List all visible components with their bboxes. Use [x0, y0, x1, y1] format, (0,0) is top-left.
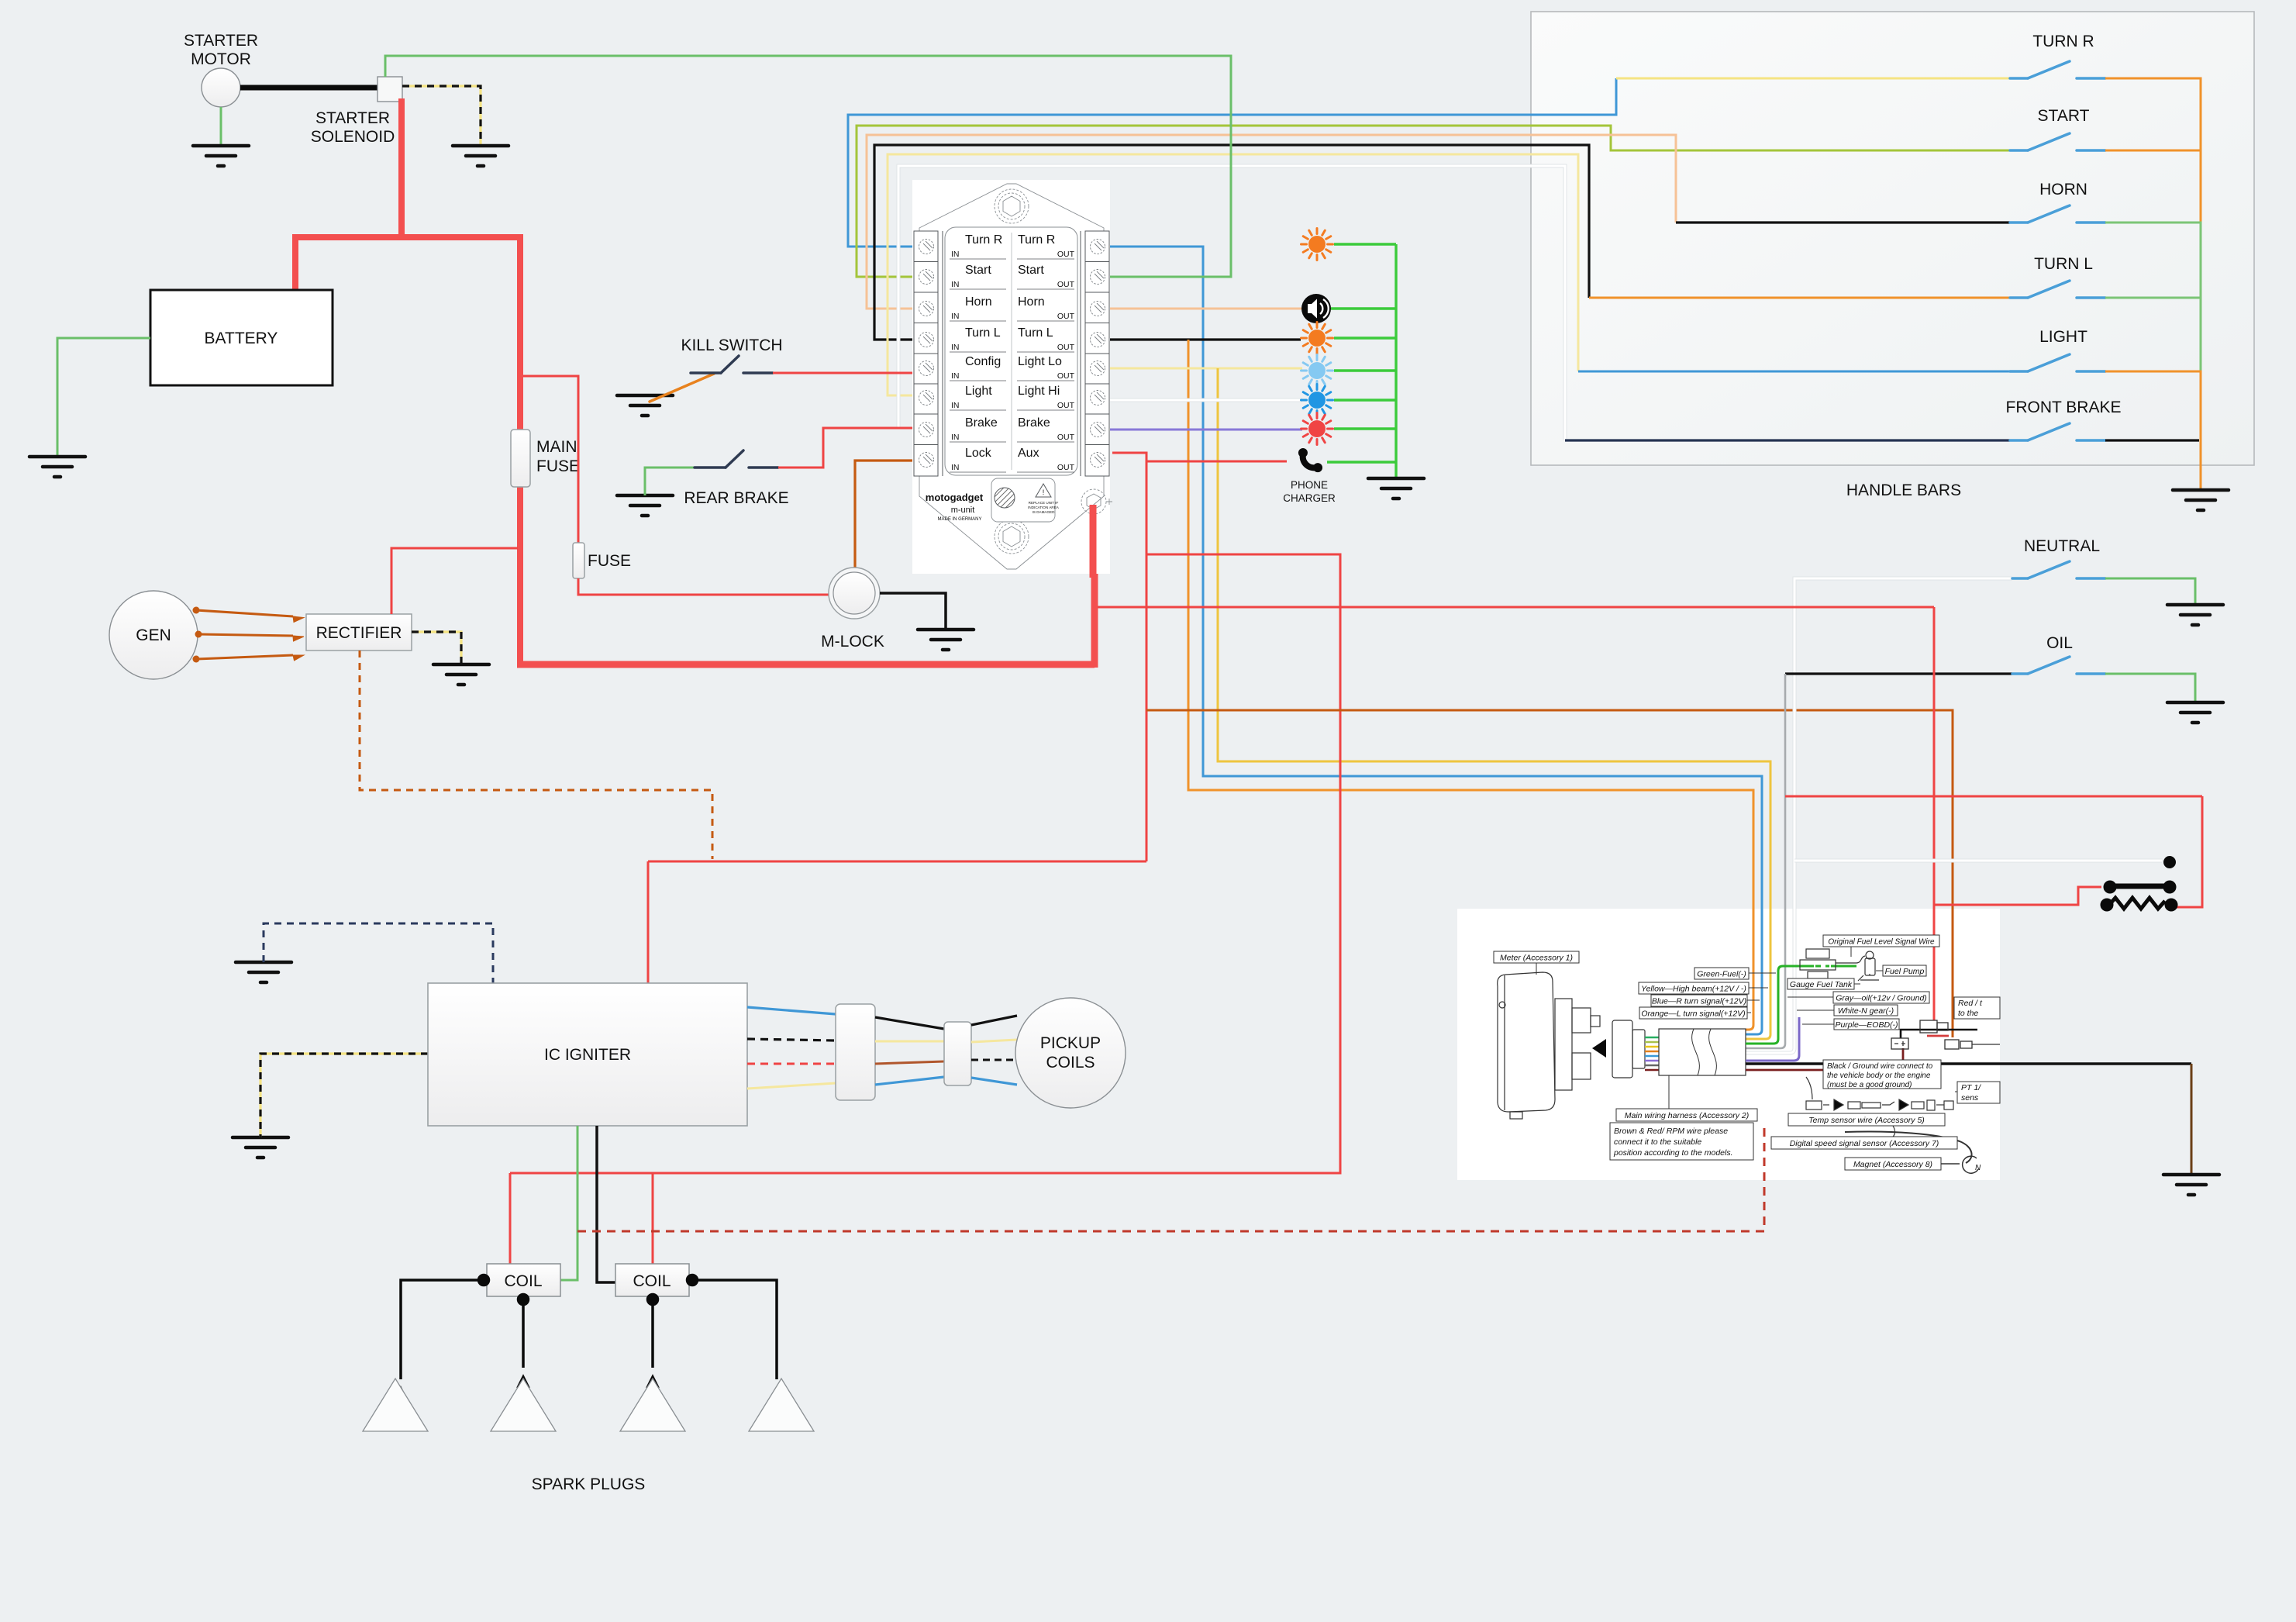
wire: navy FRONT BRAKE switch feed [1565, 439, 2010, 441]
spark plug 2 [491, 1379, 556, 1431]
wire: gen phase arrows to rectifier [193, 607, 305, 663]
switch OIL [2012, 657, 2105, 674]
ground indicator bus [1368, 478, 1424, 499]
wire: orange turn R out to right bus [2105, 78, 2201, 223]
svg-text:GEN: GEN [136, 626, 171, 644]
svg-text:Turn R: Turn R [965, 233, 1002, 247]
svg-text:STARTER: STARTER [315, 109, 390, 127]
m-unit top screw [995, 189, 1029, 223]
wire: brown drop to engine ground [2191, 1064, 2193, 1173]
wire: white neutral run [1746, 578, 2012, 1053]
rectifier [306, 614, 412, 651]
meter label [1494, 951, 1579, 975]
svg-text:IN: IN [951, 463, 960, 472]
svg-text:Light: Light [965, 385, 992, 398]
svg-text:IN: IN [951, 250, 960, 259]
svg-text:Gauge Fuel Tank: Gauge Fuel Tank [1790, 980, 1853, 989]
wire: black m-lock to ground [880, 593, 946, 628]
svg-text:Red / t: Red / t [1958, 999, 1983, 1008]
label magnet [1845, 1158, 1941, 1170]
starter motor [202, 68, 240, 107]
wire: yellow high-beam accessory run to meter [1218, 368, 1770, 1039]
svg-text:Brake: Brake [965, 416, 998, 430]
svg-text:IS DAMAGED: IS DAMAGED [1033, 510, 1056, 514]
switch TURN R [2010, 61, 2105, 78]
meter plug arrow [1592, 1039, 1606, 1058]
meter body drawing [1498, 972, 1600, 1119]
wire: dark red harness lead [1746, 1048, 1903, 1070]
switch START [2010, 133, 2105, 150]
indicator high beam lamp [1301, 385, 1333, 416]
wire: black battery lead [1901, 1030, 1977, 1038]
coil 1 [487, 1264, 560, 1296]
svg-text:IC IGNITER: IC IGNITER [544, 1046, 631, 1064]
svg-text:Turn L: Turn L [965, 326, 1001, 340]
switch FRONT BRAKE [2010, 423, 2105, 440]
ground neutral [2167, 605, 2223, 625]
wire: blue Turn R OUT to meter [1110, 247, 1762, 1034]
m-unit power screw [1081, 489, 1106, 514]
svg-text:Yellow—High beam(+12V / -): Yellow—High beam(+12V / -) [1641, 985, 1746, 994]
wire: dashed orange rectifier charge lead [360, 651, 712, 859]
fuel tank connector [1800, 949, 1865, 978]
wire: blue bus Turn R IN from handlebars to unit [848, 78, 1616, 247]
wire: solenoid dashed yellow-black to ground [402, 86, 481, 144]
svg-text:OIL: OIL [2046, 634, 2073, 652]
label rpm note [1610, 1123, 1753, 1160]
wire: red kill switch to Config IN [773, 372, 912, 374]
svg-text:Main wiring harness (Accessory: Main wiring harness (Accessory 2) [1625, 1111, 1749, 1120]
harness ribbon [1645, 1037, 1659, 1070]
label PT sensor [1955, 1082, 2000, 1103]
wire: black dashed to pickup [971, 1059, 1017, 1061]
svg-text:Brown & Red/ RPM wire please: Brown & Red/ RPM wire please [1614, 1127, 1728, 1136]
indicator brake lamp [1301, 413, 1333, 445]
svg-text:Magnet (Accessory 8): Magnet (Accessory 8) [1853, 1160, 1932, 1169]
wire: yellow TURN R switch feed [1616, 78, 2010, 80]
svg-text:IN: IN [951, 401, 960, 410]
svg-text:Turn L: Turn L [1018, 326, 1053, 340]
svg-text:Horn: Horn [965, 295, 992, 309]
right connector cluster [1891, 1020, 2000, 1049]
svg-text:NEUTRAL: NEUTRAL [2024, 537, 2100, 555]
svg-text:motogadget: motogadget [926, 492, 984, 503]
label black ground note [1823, 1060, 1941, 1089]
wire: green lamp2 to bus [1334, 336, 1396, 339]
switch LIGHT [2010, 354, 2105, 371]
svg-text:KILL SWITCH: KILL SWITCH [681, 336, 782, 354]
label orange l turn [1639, 1007, 1751, 1019]
switch HORN [2010, 205, 2105, 223]
wire: white to relay contact [1794, 859, 2162, 863]
svg-text:PHONE: PHONE [1291, 479, 1328, 491]
svg-text:Start: Start [965, 264, 991, 277]
svg-text:FRONT BRAKE: FRONT BRAKE [2006, 399, 2122, 416]
wire: pale yellow igniter to connector [747, 1083, 836, 1089]
svg-text:OUT: OUT [1057, 433, 1075, 442]
wire: yellow-green Start IN bus [857, 126, 2010, 277]
svg-text:SOLENOID: SOLENOID [311, 128, 395, 146]
ground rear brake [617, 495, 673, 516]
wire: green turn L out [2105, 297, 2201, 299]
generator GEN [109, 591, 198, 679]
label green fuel [1694, 968, 1776, 979]
main fuse [511, 430, 530, 487]
wire: green lamp4 to bus [1334, 399, 1396, 401]
harness label [1616, 1075, 1757, 1121]
handle bars enclosure box [1531, 12, 2254, 465]
svg-text:START: START [2038, 107, 2090, 125]
svg-text:Turn R: Turn R [1018, 233, 1055, 247]
svg-text:OUT: OUT [1057, 401, 1075, 410]
switch TURN L [2010, 281, 2105, 298]
wire: green lamp5 to bus [1334, 427, 1396, 430]
wire: white Front Brake bus [898, 166, 1565, 440]
label yellow high beam [1639, 982, 1768, 994]
wire: black dashed igniter to connector [747, 1039, 836, 1040]
label original fuel level [1823, 935, 1939, 957]
svg-text:FUSE: FUSE [588, 552, 631, 570]
svg-text:m-unit: m-unit [951, 506, 975, 515]
svg-text:FUSE: FUSE [536, 457, 580, 475]
horn speaker icon [1301, 294, 1331, 323]
svg-text:IN: IN [951, 433, 960, 442]
indicator low beam lamp [1301, 355, 1333, 387]
wire: white Light Hi OUT [1110, 399, 1302, 402]
wire: black to pickup [971, 1016, 1017, 1025]
svg-text:RECTIFIER: RECTIFIER [316, 624, 402, 642]
svg-text:MAIN: MAIN [536, 438, 577, 456]
label red to the [1954, 997, 2000, 1019]
indicator turn L lamp [1301, 323, 1333, 354]
m-lock orange wire to Lock IN [855, 461, 912, 568]
svg-text:COILS: COILS [1046, 1054, 1095, 1072]
svg-text:REAR BRAKE: REAR BRAKE [684, 489, 788, 507]
meter inset background [1457, 909, 2000, 1180]
ground kill switch [617, 395, 673, 416]
svg-text:SPARK PLUGS: SPARK PLUGS [532, 1475, 646, 1493]
ground igniter upper [236, 962, 291, 982]
wire: battery green negative [57, 338, 150, 455]
svg-text:Gray—oil(+12v / Ground): Gray—oil(+12v / Ground) [1836, 994, 1927, 1003]
wire: yellow-black dashed igniter ground lead [260, 1054, 428, 1137]
svg-text:COIL: COIL [504, 1272, 542, 1290]
svg-text:PICKUP: PICKUP [1040, 1034, 1101, 1052]
meter connector [1612, 1020, 1645, 1078]
wire: peach Horn OUT [1110, 308, 1302, 310]
svg-text:OUT: OUT [1057, 371, 1075, 381]
switch rear brake [695, 450, 778, 468]
svg-text:White-N gear(-): White-N gear(-) [1838, 1006, 1894, 1016]
svg-text:IN: IN [951, 312, 960, 321]
svg-text:INDICATION AREA: INDICATION AREA [1028, 506, 1060, 509]
wire: blue LIGHT switch feed [1578, 371, 2010, 373]
svg-text:OUT: OUT [1057, 463, 1075, 472]
svg-text:PT 1/: PT 1/ [1961, 1083, 1981, 1092]
label blue r turn [1651, 995, 1760, 1006]
svg-text:Original Fuel Level Signal Wir: Original Fuel Level Signal Wire [1828, 938, 1935, 947]
wire: dark orange accessory feed to meter [1146, 710, 1953, 1037]
wire: green phone to bus [1327, 461, 1396, 463]
speed sensor wire [1845, 1132, 1972, 1164]
wire: heavy red bus to m-unit [517, 502, 1095, 668]
svg-text:Light Lo: Light Lo [1018, 355, 1062, 368]
svg-text:Orange—L turn signal(+12V): Orange—L turn signal(+12V) [1641, 1009, 1745, 1019]
wire: green horn to bus [1331, 307, 1396, 309]
main harness box [1659, 1029, 1746, 1075]
svg-text:M-LOCK: M-LOCK [821, 633, 884, 651]
m-unit left terminal block [914, 231, 943, 476]
svg-text:OUT: OUT [1057, 312, 1075, 321]
svg-text:!: ! [1043, 488, 1045, 496]
phone charger icon [1295, 446, 1324, 475]
label speed sensor [1771, 1137, 1957, 1149]
wire: black connector link [875, 1017, 944, 1029]
wire: orange light out down to ground [2105, 371, 2201, 488]
wire: pale yellow Light Lo OUT [1110, 368, 1302, 370]
svg-text:Horn: Horn [1018, 295, 1045, 309]
wire: black igniter to coil2 [597, 1126, 615, 1282]
ground handlebars [2173, 490, 2229, 510]
svg-text:OUT: OUT [1057, 280, 1075, 289]
wire: black HORN switch feed [1676, 221, 2010, 223]
svg-text:IN: IN [951, 371, 960, 381]
m-unit terminal screws [919, 240, 1105, 468]
wire: red dashed igniter to connector [747, 1063, 836, 1065]
svg-text:connect it to the suitable: connect it to the suitable [1614, 1137, 1701, 1147]
svg-text:COIL: COIL [633, 1272, 671, 1290]
battery [150, 290, 333, 385]
wire: red fuse to m-lock [578, 578, 829, 595]
wire: brown connector link [875, 1061, 944, 1064]
label gauge fuel tank [1788, 978, 1860, 989]
svg-text:Temp sensor wire (Accessory 5): Temp sensor wire (Accessory 5) [1808, 1116, 1925, 1125]
IC igniter [428, 983, 747, 1126]
svg-text:IN: IN [951, 280, 960, 289]
wire: black oil run [1785, 672, 2012, 675]
svg-text:Light Hi: Light Hi [1018, 385, 1060, 398]
ground oil [2167, 702, 2223, 723]
svg-text:the vehicle body or the engine: the vehicle body or the engine [1827, 1072, 1931, 1080]
m-unit U1 body [912, 180, 1112, 574]
coil 2 [615, 1264, 689, 1296]
label temp sensor [1788, 1113, 1945, 1126]
svg-text:CHARGER: CHARGER [1283, 492, 1336, 504]
m-unit label panel [945, 227, 1077, 475]
svg-text:MADE IN GERMANY: MADE IN GERMANY [937, 517, 981, 522]
temp sensor chain [1806, 1077, 1953, 1110]
spark plug 1 [363, 1379, 428, 1431]
svg-text:OUT: OUT [1057, 250, 1075, 259]
wire: red accessory rail right [1098, 607, 2202, 1020]
svg-text:HORN: HORN [2039, 181, 2087, 198]
svg-text:Blue—R turn signal(+12V): Blue—R turn signal(+12V) [1652, 997, 1746, 1006]
svg-text:Lock: Lock [965, 447, 992, 460]
wire: heavy red unit power stub [1090, 505, 1097, 578]
wire: black ground harness lead [1746, 1062, 2191, 1065]
pickup coils [1015, 998, 1126, 1108]
wire: green indicator bus [1394, 244, 1397, 477]
ground solenoid [453, 146, 508, 166]
wire: pale yellow connector link [875, 1040, 944, 1043]
svg-text:(must be a good ground): (must be a good ground) [1827, 1081, 1912, 1089]
wire: red pigtail [1927, 1035, 1949, 1037]
spark plug 4 [749, 1379, 814, 1431]
fuel pump glyph [1858, 951, 1879, 981]
label purple eobd [1802, 1019, 1899, 1030]
starter solenoid [377, 77, 402, 102]
wire: green lamp1 to bus [1334, 243, 1396, 245]
wire: red rectifier output to main bus [391, 548, 518, 614]
svg-text:Meter (Accessory 1): Meter (Accessory 1) [1500, 954, 1573, 963]
spark plug 3 [620, 1379, 685, 1431]
svg-text:STARTER: STARTER [184, 32, 258, 50]
m-lock [829, 568, 880, 619]
m-unit right terminal block [1081, 231, 1109, 476]
wire: green neutral to ground [2105, 578, 2195, 603]
svg-text:Digital speed signal sensor (A: Digital speed signal sensor (Accessory 7… [1790, 1139, 1939, 1148]
wire: pale yellow Light IN bus [888, 154, 1578, 395]
svg-text:OUT: OUT [1057, 343, 1075, 352]
wire: black Turn L IN bus [874, 145, 1589, 340]
wire: navy dashed igniter ground lead [264, 923, 493, 983]
magnet glyph [1941, 1156, 1981, 1173]
ground starter motor [193, 146, 249, 166]
svg-text:Black / Ground wire connect to: Black / Ground wire connect to [1827, 1062, 1933, 1071]
wire: dashed red RPM run [577, 1123, 1764, 1231]
wire: orange TURN L switch feed [1589, 297, 2010, 299]
switch kill [691, 356, 773, 373]
label white n gear [1797, 1005, 1898, 1016]
wire: blue to pickup [971, 1078, 1017, 1085]
svg-text:Brake: Brake [1018, 416, 1050, 430]
svg-text:TURN R: TURN R [2032, 33, 2094, 50]
wire: orange start out [2105, 150, 2201, 152]
wire: green rear brake to ground [645, 468, 695, 495]
wire: gray oil drop to meter [1746, 674, 1785, 1048]
wire: green horn out [2105, 223, 2201, 371]
wire: purple EOBD wire [1746, 1017, 1799, 1061]
ground battery [29, 457, 85, 477]
wire: pale yellow to pickup [971, 1040, 1017, 1042]
pickup connector B [944, 1022, 971, 1085]
pickup connector A [836, 1004, 875, 1100]
relay flasher [2101, 857, 2177, 912]
svg-text:LIGHT: LIGHT [2039, 328, 2087, 346]
wire: blue igniter to connector [747, 1007, 836, 1014]
svg-text:Purple—EOBD(-): Purple—EOBD(-) [1835, 1020, 1898, 1030]
wire: orange kill switch to ground [650, 374, 714, 402]
svg-text:IN: IN [951, 343, 960, 352]
m-unit brand plate [991, 478, 1055, 522]
wire: orange L-turn accessory run to meter [1188, 340, 1753, 1030]
svg-text:BATTERY: BATTERY [205, 330, 278, 347]
wire: green Start OUT to solenoid [385, 56, 1231, 277]
wire: green lamp3 to bus [1334, 369, 1396, 371]
m-unit bottom screw [995, 519, 1029, 554]
svg-text:Aux: Aux [1018, 447, 1039, 460]
ground m-lock [918, 630, 974, 650]
svg-text:sens: sens [1961, 1093, 1979, 1103]
wire: black Turn L OUT [1110, 338, 1301, 340]
svg-text:N: N [1975, 1164, 1981, 1172]
label fuel pump [1876, 965, 1926, 976]
wire: purple Brake OUT [1110, 429, 1302, 431]
ground engine [2163, 1175, 2219, 1195]
wire: black coil1 to plug1 [396, 1275, 781, 1399]
switch NEUTRAL [2012, 561, 2105, 578]
indicator turn R lamp [1301, 229, 1333, 261]
wire: black front brake out [2105, 439, 2199, 441]
svg-text:Start: Start [1018, 264, 1044, 277]
svg-text:TURN L: TURN L [2034, 255, 2093, 273]
ground igniter lower [233, 1137, 288, 1158]
wire: green fuel wire [1746, 966, 1856, 1044]
wire: red Aux OUT feed network [510, 453, 1340, 1264]
wire: red feed to aux fuse [523, 376, 578, 543]
fuse [573, 543, 584, 578]
wire: peach Horn IN bus [867, 135, 1676, 309]
wire: green oil to ground [2105, 674, 2195, 701]
svg-text:Config: Config [965, 355, 1001, 368]
label gray oil [1788, 992, 1929, 1003]
ground rectifier [433, 664, 489, 685]
svg-text:HANDLE BARS: HANDLE BARS [1846, 481, 1961, 499]
svg-text:MOTOR: MOTOR [191, 50, 251, 68]
svg-text:Fuel Pump: Fuel Pump [1885, 967, 1925, 976]
wire: green igniter to coil1 [560, 1126, 577, 1280]
svg-text:REPLACE UNIT IF: REPLACE UNIT IF [1029, 501, 1059, 505]
wire: red rear brake to Brake IN [778, 428, 912, 468]
wire: heavy black starter cable [240, 85, 379, 91]
svg-text:position according to the mode: position according to the models. [1613, 1148, 1733, 1158]
svg-text:Green-Fuel(-): Green-Fuel(-) [1697, 970, 1746, 979]
svg-text:to the: to the [1958, 1009, 1978, 1018]
wire: rectifier dashed yellow-black ground lead [412, 632, 461, 664]
wire: blue connector link [875, 1077, 944, 1085]
wire: battery heavy red positive [398, 98, 405, 237]
wire: starter motor green to ground [220, 107, 222, 144]
